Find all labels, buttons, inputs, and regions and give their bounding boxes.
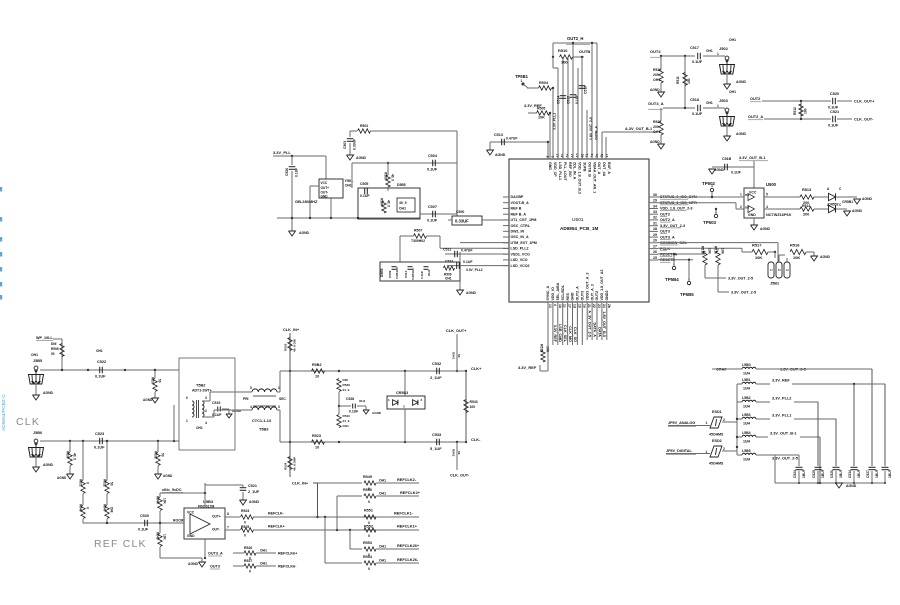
svg-text:AGND: AGND (495, 153, 506, 157)
svg-text:0.1UF: 0.1UF (463, 260, 473, 264)
svg-text:50: 50 (457, 354, 461, 358)
svg-text:AGND: AGND (143, 398, 153, 402)
svg-text:REF_BO: REF_BO (568, 162, 572, 177)
svg-text:0.1UF: 0.1UF (95, 375, 106, 379)
svg-text:10: 10 (315, 375, 319, 379)
svg-text:OH1: OH1 (729, 38, 736, 42)
svg-text:OUT2_H: OUT2_H (567, 36, 583, 41)
svg-text:CLK_OUT+: CLK_OUT+ (446, 329, 467, 333)
svg-text:R539: R539 (343, 383, 351, 387)
svg-text:1UH: 1UH (743, 440, 750, 444)
svg-text:R532: R532 (103, 479, 107, 487)
svg-text:0: 0 (368, 500, 370, 504)
svg-text:VBAA_OUT_AN_1: VBAA_OUT_AN_1 (592, 162, 596, 193)
svg-text:1UH: 1UH (743, 387, 750, 391)
svg-text:C513: C513 (494, 133, 503, 137)
svg-text:WP_10LL: WP_10LL (36, 336, 53, 340)
svg-text:0.1UF: 0.1UF (94, 446, 105, 450)
svg-text:C526: C526 (830, 470, 834, 478)
svg-text:T5B2: T5B2 (196, 384, 205, 388)
svg-text:CTC1-1-13: CTC1-1-13 (252, 419, 271, 423)
svg-text:SEL_A/BA: SEL_A/BA (556, 282, 560, 300)
svg-text:OH1: OH1 (96, 349, 103, 353)
svg-text:R552: R552 (364, 525, 373, 529)
svg-text:4: 4 (250, 405, 252, 409)
svg-text:20: 20 (653, 239, 657, 243)
svg-text:GND: GND (187, 534, 195, 538)
svg-text:U501: U501 (572, 217, 584, 223)
svg-text:3.3V_PLL2: 3.3V_PLL2 (772, 397, 791, 401)
svg-text:REFCLK6+: REFCLK6+ (278, 552, 298, 556)
svg-text:10K: 10K (163, 534, 167, 541)
svg-text:49_9: 49_9 (73, 453, 77, 460)
svg-text:R537: R537 (151, 377, 155, 385)
svg-text:DACBP: DACBP (511, 195, 524, 199)
svg-text:1: 1 (706, 421, 708, 425)
svg-text:21: 21 (587, 304, 591, 308)
svg-text:C519: C519 (212, 401, 220, 405)
svg-text:CLK_IN+: CLK_IN+ (292, 482, 309, 486)
svg-text:200: 200 (653, 73, 659, 77)
svg-text:R540: R540 (343, 414, 351, 418)
svg-text:4d: 4d (575, 154, 579, 158)
svg-text:1: 1 (186, 419, 188, 423)
svg-text:AGND: AGND (852, 209, 863, 213)
svg-text:C505: C505 (360, 182, 368, 186)
svg-text:OUT3: OUT3 (660, 230, 670, 234)
svg-text:R524: R524 (241, 509, 249, 513)
svg-text:VCC: VCC (321, 181, 328, 185)
svg-text:0.1UF: 0.1UF (360, 194, 370, 198)
svg-text:CLK_OUT-: CLK_OUT- (854, 118, 874, 122)
svg-text:LSD_PLL2: LSD_PLL2 (511, 247, 529, 251)
svg-text:VDD3_OUT_A_3: VDD3_OUT_A_3 (585, 273, 589, 301)
svg-text:3: 3 (785, 269, 789, 271)
svg-text:L5B5: L5B5 (742, 449, 751, 453)
svg-text:NC7WZ16P6X: NC7WZ16P6X (766, 213, 792, 217)
svg-text:R507: R507 (414, 229, 422, 233)
svg-text:R542: R542 (452, 449, 456, 457)
svg-text:R519: R519 (540, 344, 544, 352)
svg-text:1BUF: 1BUF (875, 469, 879, 478)
svg-text:26: 26 (653, 250, 657, 254)
svg-text:R514: R514 (802, 204, 810, 208)
svg-text:1: 1 (740, 193, 742, 197)
svg-text:R504: R504 (539, 81, 549, 85)
svg-text:R520: R520 (653, 68, 661, 72)
svg-text:C516: C516 (584, 86, 588, 94)
svg-text:29: 29 (653, 199, 657, 203)
svg-text:1a: 1a (582, 304, 586, 308)
svg-text:R510: R510 (558, 48, 568, 53)
svg-text:R521: R521 (653, 120, 661, 124)
svg-text:0.0B1UF: 0.0B1UF (395, 267, 399, 279)
svg-text:0.1UF: 0.1UF (420, 271, 424, 279)
svg-text:49_9: 49_9 (387, 200, 391, 207)
svg-text:AGND: AGND (760, 227, 771, 231)
svg-text:R544: R544 (156, 496, 160, 504)
svg-text:CLK_SEL: CLK_SEL (563, 325, 567, 343)
svg-text:AGND: AGND (43, 463, 54, 467)
svg-text:AGND: AGND (188, 562, 199, 566)
svg-text:5: 5 (766, 193, 768, 197)
svg-text:2: 2 (723, 447, 725, 451)
svg-text:ESD1: ESD1 (712, 410, 722, 414)
svg-text:LSD_VCO: LSD_VCO (511, 258, 528, 262)
svg-text:AGND: AGND (862, 197, 873, 201)
svg-text:1: 1 (388, 398, 390, 402)
svg-text:CLK+: CLK+ (471, 366, 482, 371)
svg-text:OUT_A_3: OUT_A_3 (590, 284, 594, 300)
svg-text:1UH: 1UH (743, 458, 750, 462)
svg-text:17: 17 (568, 304, 572, 308)
svg-text:R515: R515 (701, 246, 705, 254)
svg-text:0.1UF: 0.1UF (828, 106, 839, 110)
svg-text:CLK_OUT-: CLK_OUT- (450, 474, 470, 478)
svg-text:D5B5: D5B5 (397, 183, 406, 187)
svg-text:1b: 1b (558, 304, 562, 308)
svg-text:3.3V_OUT_B-1: 3.3V_OUT_B-1 (770, 432, 797, 436)
svg-text:RES: RES (566, 292, 570, 300)
svg-text:REFCLK2-: REFCLK2- (397, 478, 417, 482)
svg-text:OH1: OH1 (196, 426, 203, 430)
svg-text:C51B: C51B (722, 157, 732, 161)
svg-text:AGND: AGND (372, 411, 382, 415)
svg-text:REFCLK+: REFCLK+ (268, 525, 285, 529)
svg-text:REF CLK: REF CLK (94, 538, 147, 550)
svg-text:R523: R523 (312, 434, 321, 438)
svg-text:OUT2_A: OUT2_A (576, 286, 580, 301)
svg-text:OH1: OH1 (427, 269, 431, 276)
svg-text:TP503: TP503 (703, 220, 717, 225)
svg-text:200: 200 (653, 125, 659, 129)
svg-text:OH1: OH1 (706, 101, 713, 105)
svg-text:C518: C518 (690, 98, 699, 102)
svg-text:45OHMS: 45OHMS (709, 433, 724, 437)
svg-text:C521: C521 (248, 484, 257, 488)
svg-text:3.3V_OUT_2-5: 3.3V_OUT_2-5 (731, 291, 756, 295)
svg-text:OUT_4A: OUT_4A (602, 162, 606, 177)
svg-text:3.3V_PLL1: 3.3V_PLL1 (772, 414, 792, 418)
svg-text:B1: B1 (745, 193, 749, 197)
svg-text:R525: R525 (241, 525, 249, 529)
svg-text:AGND: AGND (846, 484, 857, 488)
svg-text:3.3V_PLL1: 3.3V_PLL1 (553, 113, 557, 130)
svg-text:0.1UF: 0.1UF (731, 171, 742, 175)
svg-text:OUT-: OUT- (212, 528, 220, 532)
svg-text:2: 2 (723, 418, 725, 422)
svg-text:0.1UF: 0.1UF (349, 410, 358, 414)
svg-text:DNI: DNI (110, 507, 114, 513)
svg-text:REFCLK6-: REFCLK6- (278, 565, 297, 569)
svg-text:TP5B4: TP5B4 (665, 277, 679, 282)
svg-text:VDD_1.8_OUT_2-3: VDD_1.8_OUT_2-3 (660, 207, 692, 211)
svg-text:5: 5 (250, 386, 252, 390)
svg-text:0.1UF: 0.1UF (575, 95, 579, 104)
svg-text:AGND: AGND (43, 391, 54, 395)
svg-text:R543: R543 (470, 400, 478, 404)
svg-text:30: 30 (653, 193, 657, 197)
svg-text:PRI: PRI (243, 397, 249, 401)
svg-text:REFCLK-: REFCLK- (268, 512, 285, 516)
svg-text:C500: C500 (456, 210, 464, 214)
svg-text:R534: R534 (284, 462, 288, 470)
svg-text:100: 100 (470, 405, 476, 409)
svg-text:100: 100 (561, 60, 568, 65)
svg-text:OH1: OH1 (260, 562, 267, 566)
svg-text:49_9: 49_9 (399, 201, 407, 205)
svg-text:TP5B5: TP5B5 (680, 292, 694, 297)
svg-text:OUT4: OUT4 (650, 49, 661, 54)
svg-text:C523: C523 (95, 432, 104, 436)
svg-text:R527: R527 (244, 559, 252, 563)
svg-text:CR502: CR502 (828, 203, 839, 207)
svg-text:25: 25 (653, 256, 657, 260)
svg-text:CLK_SO: CLK_SO (573, 327, 577, 342)
svg-text:A_3V_OUT_2-5: A_3V_OUT_2-5 (588, 310, 592, 337)
svg-text:CR5B3: CR5B3 (396, 391, 408, 395)
svg-text:0.1UF: 0.1UF (295, 168, 299, 177)
svg-text:CLK_IN+: CLK_IN+ (283, 328, 300, 332)
svg-text:3.3V_REF: 3.3V_REF (772, 379, 790, 383)
svg-text:R505: R505 (537, 107, 545, 111)
svg-text:C521: C521 (830, 110, 840, 114)
svg-text:OH1: OH1 (379, 559, 386, 563)
svg-text:0: 0 (86, 507, 90, 509)
svg-text:OUT2: OUT2 (750, 97, 760, 101)
svg-text:C522: C522 (97, 360, 106, 364)
svg-text:3.3V_OUT_2-3: 3.3V_OUT_2-3 (660, 224, 685, 228)
svg-text:24_9: 24_9 (343, 419, 350, 423)
svg-text:OUT4_A: OUT4_A (648, 101, 664, 106)
svg-text:0.47UF: 0.47UF (506, 137, 518, 141)
svg-text:1UH: 1UH (743, 372, 750, 376)
svg-text:0: 0 (368, 534, 370, 538)
svg-text:50: 50 (110, 482, 114, 486)
svg-text:0.1UF: 0.1UF (427, 168, 438, 172)
svg-text:50: 50 (457, 451, 461, 455)
svg-text:L5B1: L5B1 (742, 378, 751, 382)
svg-text:GND: GND (571, 292, 575, 300)
svg-text:OH1: OH1 (359, 399, 366, 403)
svg-text:R5B2: R5B2 (312, 363, 322, 367)
svg-text:B2: B2 (745, 206, 749, 210)
svg-text:1: 1 (769, 269, 773, 271)
svg-text:ESD2: ESD2 (712, 439, 722, 443)
svg-text:R554: R554 (363, 555, 373, 559)
svg-text:PLL_LOUT: PLL_LOUT (563, 162, 567, 181)
svg-text:R531: R531 (79, 479, 83, 487)
svg-text:0: 0 (368, 567, 370, 571)
svg-text:1d: 1d (573, 304, 577, 308)
svg-text:OH1: OH1 (260, 549, 267, 553)
svg-text:R545: R545 (156, 532, 160, 540)
svg-text:49_9: 49_9 (391, 174, 395, 181)
svg-text:32: 32 (653, 216, 657, 220)
svg-text:JP5V_DIGITAL: JP5V_DIGITAL (666, 449, 692, 453)
svg-text:GB-280MHZ: GB-280MHZ (295, 199, 318, 204)
svg-text:C525: C525 (812, 470, 816, 478)
svg-text:DNI: DNI (51, 342, 57, 346)
svg-text:3.3V_OUT_2-5: 3.3V_OUT_2-5 (728, 277, 753, 281)
svg-text:OUT_A: OUT_A (597, 162, 601, 175)
svg-text:J503: J503 (719, 98, 729, 103)
svg-text:R511: R511 (676, 76, 680, 84)
svg-text:DNI: DNI (343, 378, 348, 382)
svg-text:REFCLK26-: REFCLK26- (397, 558, 419, 562)
svg-text:34: 34 (653, 204, 657, 208)
svg-text:OUT3: OUT3 (210, 565, 220, 569)
svg-text:2: 2 (777, 269, 781, 271)
svg-text:0: 0 (244, 521, 246, 525)
svg-text:2: 2 (421, 398, 423, 402)
svg-text:C520: C520 (830, 92, 839, 96)
svg-text:10K: 10K (793, 255, 800, 260)
svg-text:UT1_CGT_1PM: UT1_CGT_1PM (511, 218, 537, 222)
svg-text:OH1: OH1 (343, 424, 350, 428)
svg-text:C509: C509 (388, 270, 392, 278)
svg-text:VOUT-B_A: VOUT-B_A (511, 201, 530, 205)
svg-text:AD9854/PCBZ-C: AD9854/PCBZ-C (1, 394, 7, 431)
svg-text:VCC: VCC (749, 191, 757, 195)
svg-text:3.3V_PLL: 3.3V_PLL (273, 150, 291, 155)
svg-text:45OHMS: 45OHMS (709, 462, 724, 466)
svg-text:22: 22 (592, 304, 596, 308)
svg-text:R541: R541 (452, 352, 456, 360)
svg-text:AD9854_PCB_1M: AD9854_PCB_1M (560, 226, 598, 231)
svg-text:1UH: 1UH (743, 405, 750, 409)
svg-text:R501: R501 (360, 124, 368, 128)
svg-text:0: 0 (244, 534, 246, 538)
svg-text:29: 29 (653, 233, 657, 237)
svg-text:5_1UF: 5_1UF (430, 447, 442, 451)
svg-text:R547: R547 (103, 504, 107, 512)
svg-text:R550: R550 (363, 488, 372, 492)
svg-text:C512: C512 (445, 260, 453, 264)
svg-text:10K: 10K (755, 255, 762, 260)
svg-text:DW1_IN: DW1_IN (511, 230, 525, 234)
svg-text:FIN1017M: FIN1017M (198, 505, 214, 509)
svg-text:ZDL_IN_A: ZDL_IN_A (573, 162, 577, 180)
svg-text:GND: GND (748, 213, 756, 217)
svg-text:1BUF: 1BUF (802, 469, 806, 478)
svg-text:SEC: SEC (279, 397, 286, 401)
svg-text:1: 1 (521, 79, 523, 83)
svg-text:10: 10 (315, 446, 319, 450)
svg-text:xIN=_5vDC: xIN=_5vDC (162, 488, 182, 492)
svg-text:CLK_OUT+: CLK_OUT+ (854, 100, 875, 104)
svg-text:AGND: AGND (163, 474, 173, 478)
svg-text:AGND: AGND (736, 132, 747, 136)
svg-text:27: 27 (653, 244, 657, 248)
svg-text:49_9 DNI: 49_9 DNI (293, 339, 297, 352)
svg-text:OSC_IN_A: OSC_IN_A (511, 235, 529, 239)
svg-text:J5B6: J5B6 (33, 431, 42, 435)
svg-text:100: 100 (687, 78, 691, 84)
svg-text:C517: C517 (690, 46, 699, 50)
svg-text:4: 4 (766, 205, 768, 209)
svg-text:SCL/SDL: SCL/SDL (561, 284, 565, 300)
svg-text:R516: R516 (714, 246, 718, 254)
svg-text:VSD1_VCO: VSD1_VCO (511, 252, 530, 256)
svg-text:CLK_MO: CLK_MO (568, 326, 572, 342)
svg-text:50: 50 (51, 352, 55, 356)
svg-text:3: 3 (205, 396, 207, 400)
svg-text:DATA: DATA (597, 327, 601, 337)
svg-text:R538: R538 (154, 451, 158, 459)
svg-text:200: 200 (803, 213, 809, 217)
svg-text:R504: R504 (380, 198, 384, 206)
svg-text:VCC: VCC (187, 511, 195, 515)
svg-text:19: 19 (577, 304, 581, 308)
svg-text:49_9 DNP: 49_9 DNP (293, 457, 297, 471)
svg-text:3.3V_OUT_2-5: 3.3V_OUT_2-5 (772, 457, 799, 461)
svg-text:AGND: AGND (356, 156, 367, 160)
svg-text:1.8V_OUT_B-5: 1.8V_OUT_B-5 (602, 311, 606, 337)
svg-text:OUT3_A: OUT3_A (660, 235, 675, 239)
svg-text:REFCLK2+: REFCLK2+ (400, 491, 421, 495)
svg-text:OUT+: OUT+ (321, 186, 330, 190)
svg-text:10K: 10K (163, 498, 167, 505)
svg-text:37: 37 (605, 154, 609, 158)
svg-text:ADT1-1WT+: ADT1-1WT+ (192, 389, 212, 393)
svg-text:3: 3 (278, 405, 280, 409)
svg-text:REF B_A: REF B_A (511, 212, 527, 216)
svg-text:24_9: 24_9 (343, 388, 350, 392)
svg-text:R530: R530 (66, 451, 70, 459)
svg-text:C504: C504 (428, 154, 438, 158)
svg-text:0.47UF: 0.47UF (461, 249, 473, 253)
svg-text:REFCLK1-: REFCLK1- (394, 512, 414, 516)
svg-text:3: 3 (403, 405, 405, 409)
svg-text:2: 2 (205, 409, 207, 413)
svg-text:AGND: AGND (650, 140, 660, 144)
svg-text:1: 1 (717, 52, 719, 56)
svg-text:10K: 10K (538, 116, 545, 120)
svg-text:10K: 10K (708, 248, 712, 255)
svg-text:J5B1: J5B1 (770, 282, 780, 286)
svg-text:1: 1 (717, 104, 719, 108)
svg-text:OUT3: OUT3 (581, 291, 585, 301)
svg-text:VDD_1.8_OUT_B.3: VDD_1.8_OUT_B.3 (578, 162, 582, 194)
svg-text:1BUF: 1BUF (857, 469, 861, 478)
svg-text:R503: R503 (384, 172, 388, 180)
svg-text:OUTB_B: OUTB_B (587, 162, 591, 177)
svg-text:OH1: OH1 (379, 479, 386, 483)
svg-text:0.1UF: 0.1UF (692, 112, 703, 116)
svg-text:GND: GND (321, 195, 329, 199)
svg-text:U500: U500 (766, 182, 777, 187)
svg-text:VDD_1.8_OUT_A3: VDD_1.8_OUT_A3 (600, 270, 604, 301)
svg-text:1BUF: 1BUF (888, 469, 892, 478)
svg-text:TP502: TP502 (702, 181, 716, 186)
svg-text:C515: C515 (567, 96, 571, 104)
svg-text:J502: J502 (719, 46, 729, 51)
svg-text:OUT2_A: OUT2_A (660, 218, 675, 222)
svg-text:OH1: OH1 (445, 277, 452, 281)
svg-text:24: 24 (602, 304, 606, 308)
svg-text:L5B4: L5B4 (742, 431, 751, 435)
svg-text:REF B: REF B (511, 207, 522, 211)
svg-text:3UFB: 3UFB (583, 162, 587, 172)
svg-text:R513: R513 (802, 188, 811, 192)
svg-text:0.33UF: 0.33UF (455, 219, 469, 224)
svg-text:OUTB_A: OUTB_A (595, 126, 599, 140)
svg-text:OUT+: OUT+ (212, 515, 221, 519)
svg-text:C527: C527 (866, 470, 870, 478)
svg-text:C511: C511 (443, 248, 451, 252)
svg-text:31: 31 (653, 222, 657, 226)
